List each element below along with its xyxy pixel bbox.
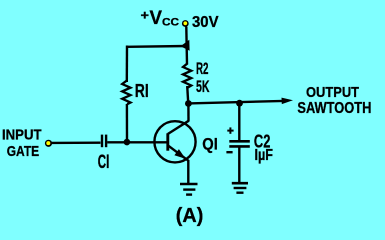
svg-text:GATE: GATE bbox=[7, 144, 40, 160]
wire C2 top lead bbox=[238, 103, 240, 140]
wire collector vertical bbox=[187, 104, 190, 122]
label +VCC bbox=[141, 8, 180, 30]
transistor Q1 circle bbox=[154, 121, 195, 162]
wire horizontal VCC to R1 bbox=[127, 45, 187, 48]
capacitor C2 minus dash bbox=[226, 151, 232, 153]
svg-text:OUTPUT: OUTPUT bbox=[306, 85, 359, 101]
node C2 junction dot bbox=[236, 100, 243, 107]
node collector junction dot bbox=[185, 100, 192, 107]
svg-text:SAWTOOTH: SAWTOOTH bbox=[297, 100, 371, 117]
wire C1 to base bbox=[107, 141, 167, 143]
transistor Q1 emitter diagonal bbox=[168, 145, 189, 161]
transistor Q1 emitter arrowhead bbox=[174, 149, 185, 159]
capacitor C2 plus sign bbox=[227, 127, 233, 133]
ground C2 bbox=[232, 183, 248, 193]
capacitor C1 left plate bbox=[101, 135, 103, 148]
transistor Q1 collector diagonal bbox=[168, 121, 189, 134]
wire VCC vertical to R2 bbox=[185, 27, 188, 65]
svg-text:CC: CC bbox=[162, 17, 179, 29]
svg-text:INPUT: INPUT bbox=[2, 128, 42, 144]
transistor Q1 base bar bbox=[166, 133, 169, 150]
wire emitter vertical bbox=[187, 160, 189, 184]
svg-text:RI: RI bbox=[135, 80, 149, 101]
svg-text:5K: 5K bbox=[196, 78, 210, 96]
svg-text:R2: R2 bbox=[196, 60, 209, 78]
svg-text:+: + bbox=[141, 8, 150, 23]
junction VCC node blob bbox=[181, 40, 190, 51]
wire R1 top lead bbox=[126, 46, 129, 83]
capacitor C2 top plate bbox=[229, 140, 250, 143]
resistor R1 bbox=[122, 80, 130, 104]
arrowhead output bbox=[282, 98, 294, 105]
wire output horizontal bbox=[188, 101, 283, 104]
wire R2 bottom lead bbox=[187, 86, 188, 104]
svg-text:(A): (A) bbox=[176, 205, 204, 227]
terminal input dot bbox=[45, 140, 52, 147]
junction base node dot bbox=[124, 139, 131, 146]
svg-text:30V: 30V bbox=[192, 14, 219, 31]
capacitor C2 bottom plate bbox=[229, 145, 250, 148]
svg-text:V: V bbox=[150, 8, 163, 29]
wire R1 bottom lead bbox=[126, 104, 128, 142]
capacitor C1 right plate bbox=[105, 135, 107, 148]
svg-text:IµF: IµF bbox=[255, 147, 274, 164]
ground Q1 bbox=[180, 184, 198, 195]
wire C2 bottom lead bbox=[238, 147, 240, 184]
wire input to C1 bbox=[51, 141, 101, 144]
resistor R2 bbox=[183, 63, 191, 87]
terminal VCC dot bbox=[182, 20, 189, 27]
svg-text:QI: QI bbox=[202, 135, 218, 153]
svg-text:CI: CI bbox=[98, 152, 110, 173]
